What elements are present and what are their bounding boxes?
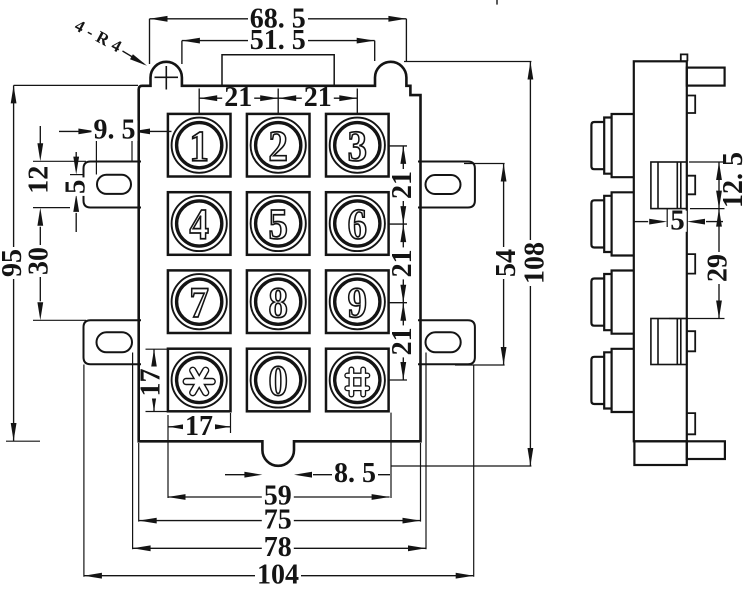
svg-text:21: 21 [387,327,418,355]
svg-text:5: 5 [670,204,685,236]
svg-text:21: 21 [224,82,252,113]
svg-text:8: 8 [269,279,288,326]
svg-text:17: 17 [185,411,213,442]
svg-text:5: 5 [60,179,92,194]
svg-text:21: 21 [387,171,418,199]
svg-text:51. 5: 51. 5 [250,25,306,56]
svg-text:78: 78 [264,532,292,563]
svg-text:104: 104 [257,559,299,590]
svg-text:29: 29 [703,254,734,282]
svg-text:5: 5 [269,201,288,248]
svg-text:12. 5: 12. 5 [718,152,749,208]
svg-text:9: 9 [348,279,367,326]
svg-text:30: 30 [24,247,55,275]
svg-text:7: 7 [190,279,209,326]
svg-text:0: 0 [269,357,288,404]
svg-text:1: 1 [190,122,209,169]
svg-text:12: 12 [23,166,54,194]
svg-text:21: 21 [387,249,418,277]
svg-text:21: 21 [304,82,332,113]
svg-text:3: 3 [348,122,367,169]
svg-text:54: 54 [491,249,522,277]
svg-text:6: 6 [348,201,367,248]
svg-text:9. 5: 9. 5 [94,114,136,145]
svg-text:8. 5: 8. 5 [334,458,376,489]
svg-text:95: 95 [0,249,28,277]
svg-text:4: 4 [190,201,209,248]
svg-text:2: 2 [269,122,288,169]
svg-text:75: 75 [264,504,292,535]
svg-text:108: 108 [520,242,551,284]
svg-text:17: 17 [136,369,167,397]
